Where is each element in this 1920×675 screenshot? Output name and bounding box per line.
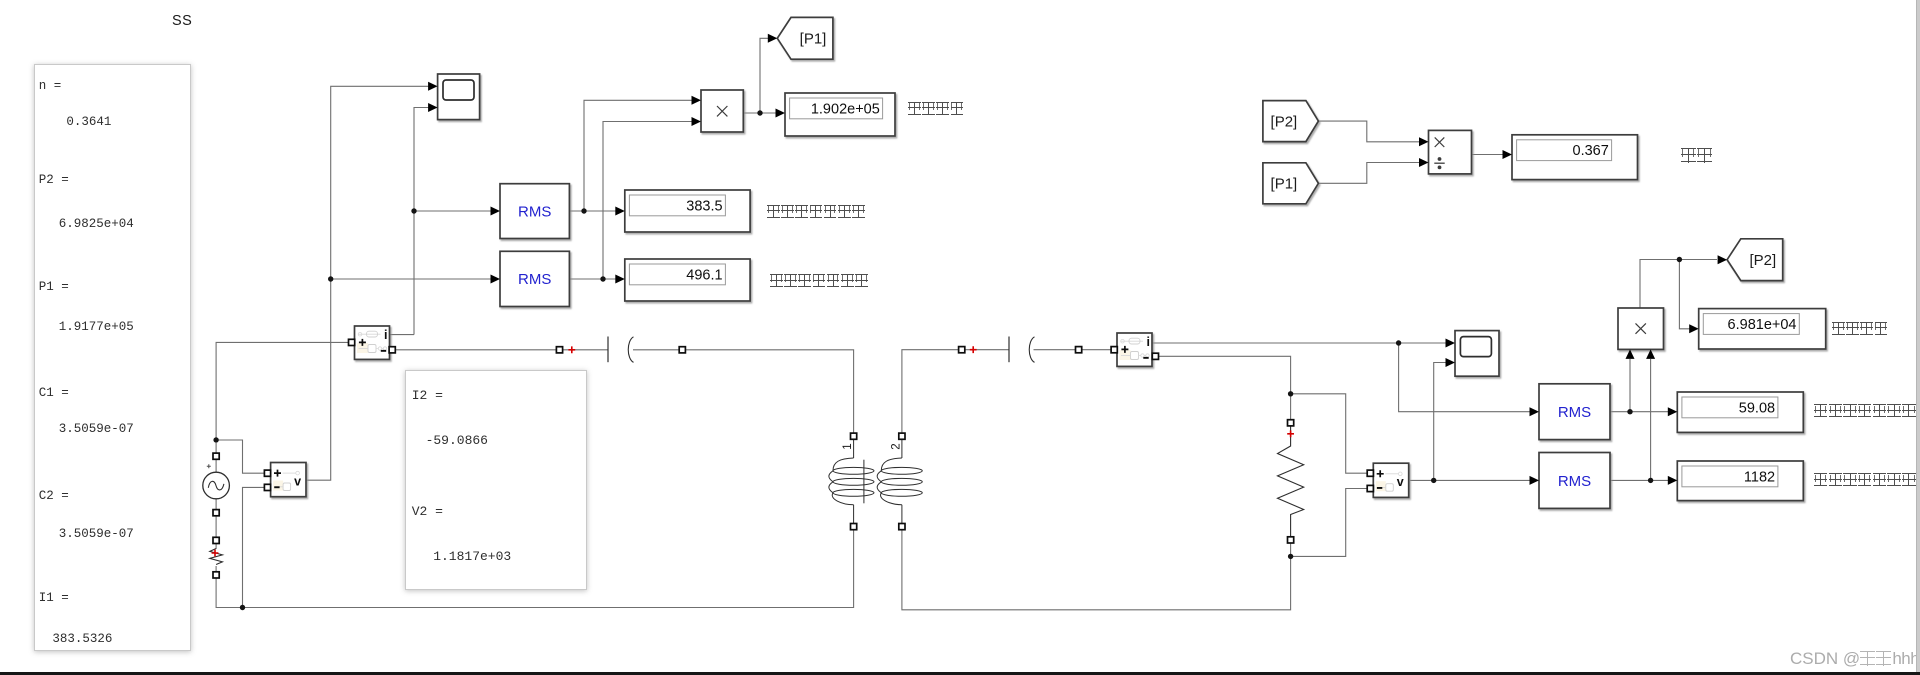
right scrollbar xyxy=(1916,0,1920,672)
wire from tag [P2] to divide input 1 xyxy=(1318,121,1419,142)
svg-text:383.5: 383.5 xyxy=(686,198,722,214)
wire v1 signal riser to scope1 input 1 xyxy=(306,86,429,480)
junction v2 signal xyxy=(1431,478,1436,483)
display primary current RMS 383.5 xyxy=(625,190,750,232)
node A junction xyxy=(213,437,218,442)
display primary voltage RMS 496.1 xyxy=(625,259,750,301)
port v2 - input xyxy=(1367,485,1373,491)
junction RMS2 output xyxy=(600,276,605,281)
display input power 1.902e+05 xyxy=(785,93,895,136)
port capacitor C1 right xyxy=(679,347,685,353)
port v2 + input xyxy=(1367,470,1373,476)
junction v1 signal xyxy=(328,276,333,281)
wire node A to voltage-meas v1 + input xyxy=(216,440,264,473)
svg-text:1182: 1182 xyxy=(1744,469,1775,485)
wire i1 signal riser to scope1 input 2 xyxy=(414,108,438,335)
wire bottom rail secondary to winding 2 xyxy=(902,527,1291,610)
port resistor R2 bottom xyxy=(1288,537,1294,543)
junction bottom rail xyxy=(240,605,245,610)
resistor R2 (load) xyxy=(1278,426,1304,537)
wire bottom rail primary to winding 1 xyxy=(216,527,854,608)
label output power 输出功率 xyxy=(1832,322,1889,335)
arrowhead divide input 1 xyxy=(1419,137,1429,146)
junction i2 signal xyxy=(1396,340,1401,345)
port resistor R1 top xyxy=(213,537,219,543)
label input power 输入功率 xyxy=(908,102,965,115)
arrowhead scope2 input 2 xyxy=(1446,358,1456,367)
arrowhead display 1.902e+05 input xyxy=(776,109,786,118)
junction product P1 output xyxy=(757,110,762,115)
svg-text:1: 1 xyxy=(842,443,854,449)
inductor winding 2 (secondary coil) xyxy=(877,439,922,523)
svg-text:v: v xyxy=(1397,475,1404,489)
port winding 2 top (pin 2) xyxy=(899,433,905,439)
svg-text:0.367: 0.367 xyxy=(1573,143,1609,159)
svg-text:[P1]: [P1] xyxy=(800,31,827,48)
wire RMS4 output to display 1182 xyxy=(1610,479,1668,481)
wire i1 signal to RMS1 input xyxy=(414,210,491,212)
wire i2 signal to scope2 input 1 xyxy=(1152,342,1446,344)
AC voltage source V1 xyxy=(203,464,230,499)
svg-text:i: i xyxy=(384,328,387,342)
arrowhead RMS3 input xyxy=(1530,407,1540,416)
RMS block 3 (secondary current) xyxy=(1539,384,1610,440)
arrowhead display 496.1 input xyxy=(615,275,625,284)
junction RMS3 output xyxy=(1627,409,1632,414)
label secondary current RMS 副边电流有效值 xyxy=(1814,404,1917,417)
arrowhead display 6.981e+04 input xyxy=(1689,324,1699,333)
arrowhead goto [P2] input xyxy=(1718,255,1728,264)
arrowhead scope1 input 1 xyxy=(428,82,438,91)
label efficiency 效率 xyxy=(1681,148,1713,163)
RMS block 2 (primary voltage) xyxy=(500,251,569,306)
arrowhead product P1 input 2 xyxy=(692,117,702,126)
display output power 6.981e+04 xyxy=(1699,309,1826,349)
svg-text:[P1]: [P1] xyxy=(1271,176,1298,193)
wire RMS2 output to product P1 input 2 xyxy=(603,122,692,280)
goto tag [P2] xyxy=(1727,239,1783,281)
workspace variables panel xyxy=(34,64,191,651)
arrowhead RMS2 input xyxy=(491,275,501,284)
wire i2 signal to RMS3 input xyxy=(1399,343,1530,412)
wire i1 signal out xyxy=(390,334,415,336)
port source top xyxy=(213,453,219,459)
port i2 + input xyxy=(1111,347,1117,353)
wire v2 signal riser to scope2 input 2 xyxy=(1434,363,1446,481)
arrowhead display 383.5 input xyxy=(615,207,625,216)
arrowhead RMS1 input xyxy=(491,207,501,216)
junction RMS4 output xyxy=(1648,478,1653,483)
scope 1 (primary) xyxy=(438,74,480,120)
port v1 + input xyxy=(264,470,270,476)
wire RMS1 output to product P1 input 1 xyxy=(584,100,692,211)
wire product P2 output to goto tag [P2] xyxy=(1640,260,1717,309)
svg-text:RMS: RMS xyxy=(518,271,551,288)
svg-text:1.902e+05: 1.902e+05 xyxy=(811,101,880,117)
wire node B to voltage-meas v2 + input xyxy=(1291,394,1368,473)
wire v1 - input down to bottom rail xyxy=(243,487,265,607)
wire source bottom lead to resistor R1 xyxy=(215,499,217,549)
voltage measurement v1 xyxy=(271,463,306,497)
current measurement i2 xyxy=(1117,333,1152,366)
port capacitor C1 left xyxy=(556,347,562,353)
svg-text:2: 2 xyxy=(890,443,902,449)
arrowhead divide input 2 xyxy=(1419,158,1429,167)
arrowhead display 0.367 input xyxy=(1503,150,1513,159)
wire product output to goto tag [P1] xyxy=(760,38,769,113)
node C junction xyxy=(1288,554,1293,559)
label secondary voltage RMS 副边电压有效值 xyxy=(1814,473,1917,486)
wire node C to voltage-meas v2 - input xyxy=(1291,489,1368,557)
red plus marker on resistor R1 xyxy=(212,550,219,557)
svg-text:[P2]: [P2] xyxy=(1271,113,1298,130)
red plus marker at resistor R2 xyxy=(1287,430,1294,437)
port resistor R1 bottom xyxy=(213,572,219,578)
label primary current RMS 原边电流有效值 xyxy=(767,205,866,218)
port capacitor C2 right xyxy=(1076,347,1082,353)
wire product output to display 1.902e+05 xyxy=(743,112,776,114)
label primary voltage RMS 原边电压有效值 xyxy=(770,274,869,287)
port i1 + input xyxy=(349,339,355,345)
svg-text:RMS: RMS xyxy=(1558,404,1591,421)
I2 V2 result panel xyxy=(405,370,587,590)
wire v2 signal to RMS4 input xyxy=(1410,479,1530,481)
display secondary voltage RMS 1182 xyxy=(1677,461,1803,501)
svg-text:6.981e+04: 6.981e+04 xyxy=(1728,317,1797,333)
port winding 1 bottom xyxy=(851,524,857,530)
capacitor C2 xyxy=(1009,337,1035,363)
junction product P2 output xyxy=(1677,257,1682,262)
junction i1 signal xyxy=(411,208,416,213)
wire from tag [P1] to divide input 2 xyxy=(1318,163,1419,184)
resistor R1 (source internal) xyxy=(210,549,223,565)
wire RMS4 output to product P2 input 2 xyxy=(1650,359,1652,480)
wire RMS1 output to display 383.5 xyxy=(569,210,616,212)
arrowhead display 1182 input xyxy=(1668,476,1678,485)
svg-text:[P2]: [P2] xyxy=(1749,252,1776,269)
arrowhead display 59.08 input xyxy=(1668,407,1678,416)
arrowhead scope2 input 1 xyxy=(1446,339,1456,348)
wire source+ to current-meas i1 + input xyxy=(216,342,348,440)
watermark CSDN xyxy=(1790,649,1919,669)
bottom window edge bar xyxy=(0,672,1920,675)
product block P2 (output power multiply) xyxy=(1618,308,1664,349)
wire source top lead xyxy=(215,443,217,472)
arrowhead product P2 input 2 xyxy=(1646,349,1655,359)
svg-text:RMS: RMS xyxy=(1558,473,1591,490)
wire divide output to display 0.367 xyxy=(1472,154,1504,156)
svg-text:59.08: 59.08 xyxy=(1739,400,1775,416)
node B junction xyxy=(1288,391,1293,396)
arrowhead product P1 input 1 xyxy=(692,96,702,105)
svg-text:496.1: 496.1 xyxy=(686,267,722,283)
RMS block 1 (primary current) xyxy=(500,184,569,239)
arrowhead RMS4 input xyxy=(1530,476,1540,485)
display secondary current RMS 59.08 xyxy=(1677,392,1803,432)
wire i1 - output to capacitor C1 xyxy=(392,349,608,351)
svg-text:v: v xyxy=(294,474,301,488)
arrowhead scope1 input 2 xyxy=(428,103,438,112)
port source bottom xyxy=(213,510,219,516)
voltage measurement v2 xyxy=(1373,463,1408,497)
title SS xyxy=(172,13,192,29)
wire v1 signal to RMS2 input xyxy=(331,278,491,280)
capacitor C1 xyxy=(608,337,634,363)
wire RMS2 output to display 496.1 xyxy=(569,278,616,280)
wire RMS3 output to product P2 input 1 xyxy=(1629,359,1631,412)
arrowhead product P2 input 1 xyxy=(1626,349,1635,359)
wire product P2 output to display 6.981e+04 xyxy=(1679,260,1689,329)
port i1 - output xyxy=(389,347,395,353)
wire capacitor C2 to current-meas i2 + input xyxy=(1034,349,1112,351)
wire capacitor C1 to winding 1 top xyxy=(633,350,854,436)
wire winding 2 top to capacitor C2 xyxy=(902,350,1009,437)
port capacitor C2 left xyxy=(959,347,965,353)
svg-text:RMS: RMS xyxy=(518,203,551,220)
port v1 - input xyxy=(264,484,270,490)
red plus marker at capacitor C2 xyxy=(970,346,977,353)
current measurement i1 xyxy=(355,326,390,359)
svg-text:i: i xyxy=(1147,335,1150,349)
red plus marker at capacitor C1 xyxy=(568,346,575,353)
wire i2 - output to load resistor R2 xyxy=(1155,356,1290,423)
product block P1 (input power multiply) xyxy=(701,90,743,132)
arrowhead goto [P1] input xyxy=(768,34,778,43)
port winding 1 top (pin 1) xyxy=(851,433,857,439)
wire RMS3 output to display 59.08 xyxy=(1610,411,1668,413)
display efficiency 0.367 xyxy=(1512,135,1638,180)
junction RMS1 output xyxy=(581,208,586,213)
port winding 2 bottom xyxy=(899,524,905,530)
RMS block 4 (secondary voltage) xyxy=(1539,453,1610,509)
divide block (efficiency) xyxy=(1429,130,1472,174)
port resistor R2 top xyxy=(1288,420,1294,426)
goto tag [P1] xyxy=(777,17,833,59)
from tag [P2] xyxy=(1263,101,1319,142)
from tag [P1] xyxy=(1263,163,1319,204)
scope 2 (secondary) xyxy=(1455,331,1499,377)
inductor winding 1 (primary coil) xyxy=(829,439,874,523)
port i2 - output xyxy=(1152,353,1158,359)
